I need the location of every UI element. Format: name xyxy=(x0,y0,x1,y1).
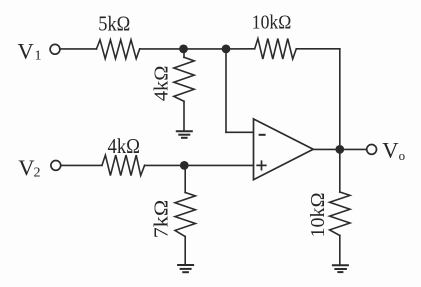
svg-text:o: o xyxy=(399,148,406,163)
resistor 10kΩ feedback xyxy=(255,39,297,59)
svg-text:1: 1 xyxy=(35,49,42,64)
wire feedback corner down to output node xyxy=(339,49,341,150)
op-amp U1 xyxy=(254,119,314,180)
resistor 4kΩ horizontal xyxy=(102,155,145,175)
node V1 terminal xyxy=(50,44,60,54)
ground (7k) xyxy=(178,265,193,272)
plus sign (non-inverting input) xyxy=(257,161,266,169)
wire node B to R 10k feedback xyxy=(226,48,255,50)
wire node C to plus input xyxy=(184,164,253,166)
resistor 5kΩ xyxy=(97,40,140,59)
wire node D to Vo terminal xyxy=(340,148,366,150)
svg-text:7kΩ: 7kΩ xyxy=(151,200,173,239)
resistor 7kΩ vertical xyxy=(175,193,195,237)
svg-text:5kΩ: 5kΩ xyxy=(98,12,130,36)
svg-text:10kΩ: 10kΩ xyxy=(252,13,291,34)
node A junction xyxy=(179,45,188,54)
resistor 10kΩ load vertical xyxy=(330,192,350,236)
resistor 4kΩ vertical xyxy=(174,57,194,101)
minus sign (inverting input) xyxy=(260,134,265,136)
ground (10k load) xyxy=(333,265,348,272)
ground (4k) xyxy=(177,131,192,138)
wire 5k to node A xyxy=(140,48,184,50)
svg-text:4kΩ: 4kΩ xyxy=(151,66,173,102)
wire node B down to inverting input xyxy=(225,49,227,132)
wire V1 terminal to R 5k xyxy=(61,48,97,50)
wire node A to node B xyxy=(184,48,227,50)
svg-text:10kΩ: 10kΩ xyxy=(308,193,329,238)
svg-text:V: V xyxy=(18,155,34,180)
wire op-amp output to node D xyxy=(313,148,340,150)
wire 4k bottom to ground xyxy=(183,101,185,131)
node B junction xyxy=(222,45,231,54)
wire into op-amp minus input xyxy=(226,131,254,133)
svg-text:4kΩ: 4kΩ xyxy=(108,134,141,158)
wire V2 terminal to R 4k xyxy=(61,164,102,166)
wire 10k feedback to corner xyxy=(296,48,340,50)
svg-text:2: 2 xyxy=(34,166,41,181)
wire 10k load bottom to ground xyxy=(339,236,341,265)
wire node C down to 7k top xyxy=(184,165,186,192)
wire 4k to node C xyxy=(145,164,185,166)
wire node A to 4k top xyxy=(183,49,185,57)
node D output junction xyxy=(335,145,344,154)
wire 7k bottom to ground xyxy=(184,237,186,265)
wire node D down to 10k load xyxy=(339,149,341,192)
node Vo terminal xyxy=(367,145,377,155)
node V2 terminal xyxy=(51,161,61,171)
node C junction xyxy=(180,161,189,170)
svg-text:V: V xyxy=(18,38,34,63)
svg-text:V: V xyxy=(382,137,398,162)
